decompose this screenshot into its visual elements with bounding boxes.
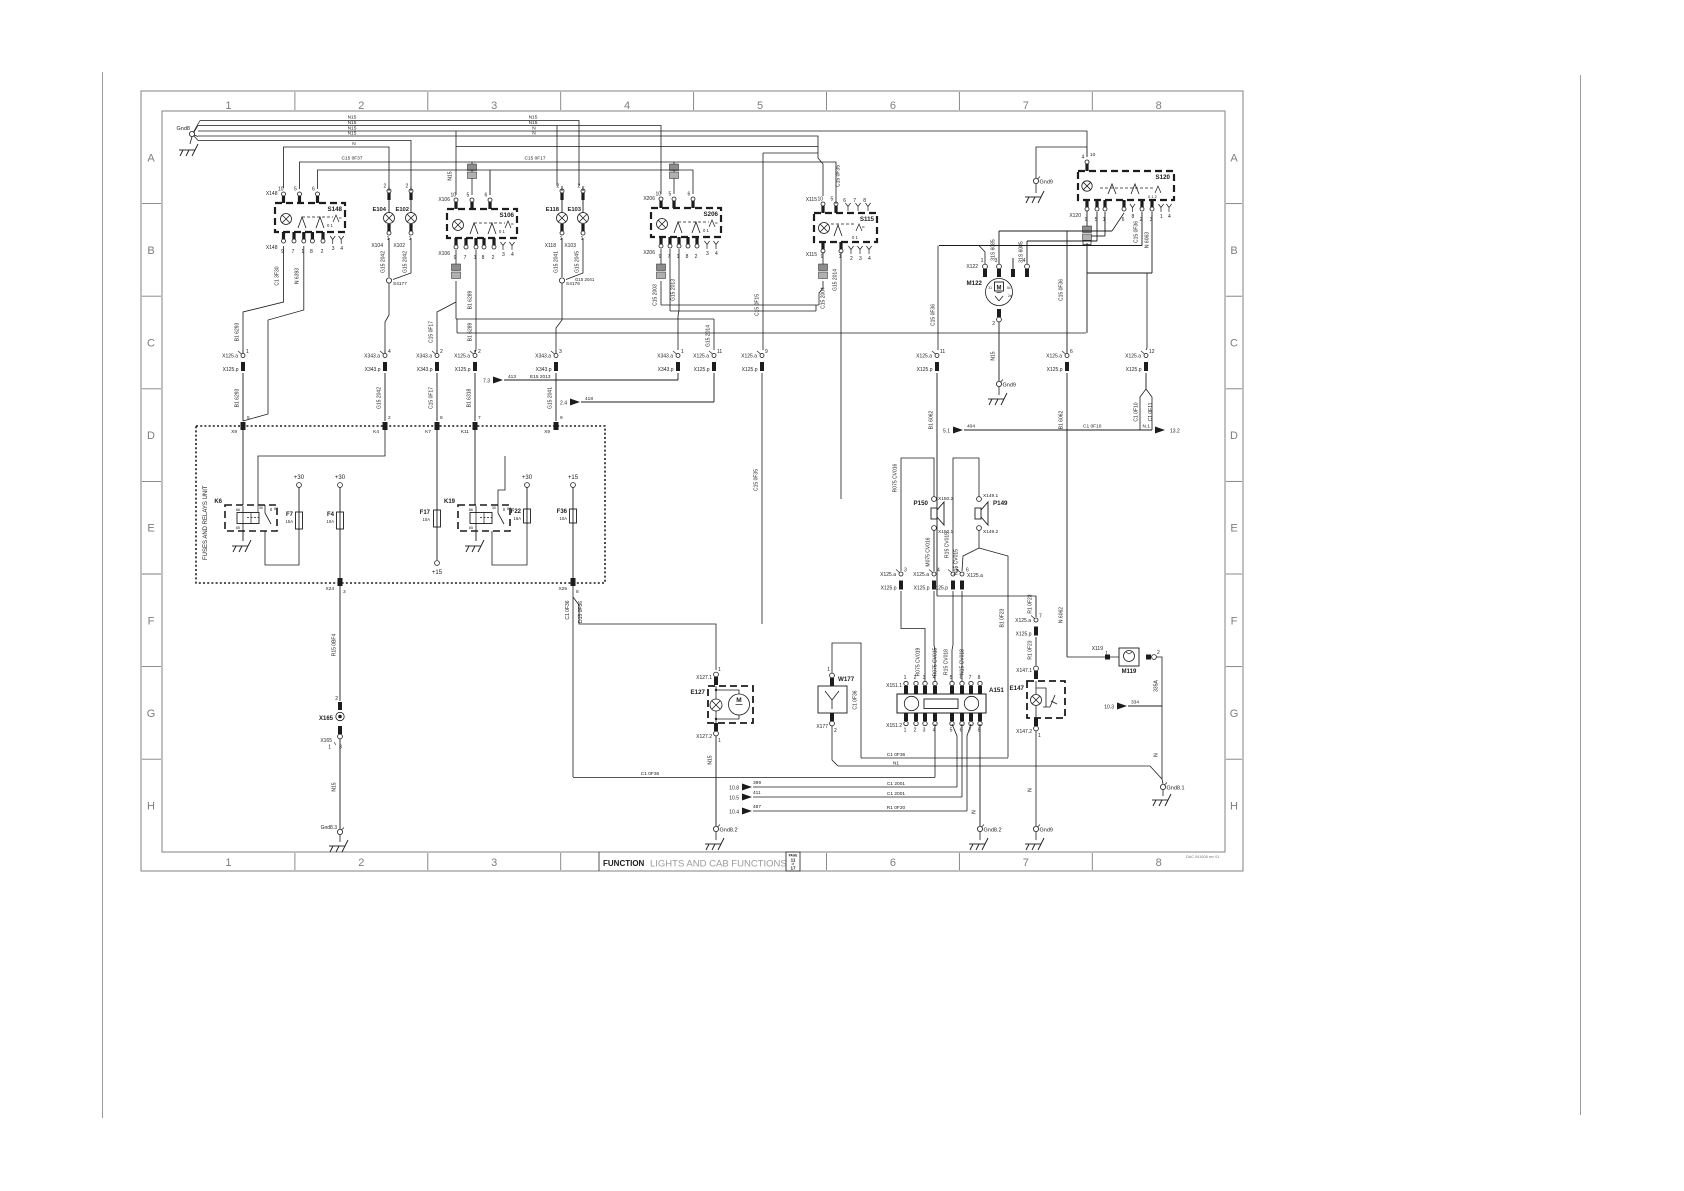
svg-text:7: 7 — [478, 415, 481, 421]
fuse F4 — [327, 475, 346, 578]
svg-text:X125.a: X125.a — [913, 572, 929, 578]
svg-text:X343.a: X343.a — [657, 354, 673, 360]
svg-text:54: 54 — [1007, 286, 1011, 290]
svg-text:X151.2: X151.2 — [886, 723, 902, 729]
svg-text:R15 0BF4: R15 0BF4 — [332, 634, 338, 657]
svg-text:FUNCTION: FUNCTION — [603, 859, 645, 868]
svg-text:1: 1 — [1160, 214, 1163, 220]
svg-text:2: 2 — [578, 184, 581, 190]
svg-text:1: 1 — [718, 667, 721, 673]
wire Gnd9 to S120 pin10 — [1036, 147, 1096, 178]
svg-text:N15: N15 — [348, 120, 357, 126]
svg-text:R075 CV019: R075 CV019 — [916, 647, 922, 676]
svg-text:3: 3 — [559, 349, 562, 355]
connector X125 pin 4 speaker row — [913, 568, 940, 592]
unit bottom pin X25 — [558, 578, 579, 595]
svg-text:X125.p: X125.p — [223, 367, 239, 373]
wire E104 E102 to node S4177 — [381, 238, 412, 350]
unit bottom pin X24 — [325, 578, 346, 595]
svg-text:S106: S106 — [500, 212, 515, 219]
svg-text:B: B — [147, 245, 154, 257]
svg-text:X148: X148 — [266, 191, 278, 197]
svg-text:B1 6318: B1 6318 — [467, 388, 473, 407]
svg-text:X103: X103 — [564, 243, 576, 249]
svg-text:5: 5 — [247, 415, 250, 421]
relay K6 — [214, 499, 278, 531]
svg-text:E104: E104 — [372, 207, 386, 213]
svg-text:Gnd9: Gnd9 — [1003, 383, 1016, 389]
fuses and relays unit box — [196, 426, 605, 583]
svg-text:Gnd8: Gnd8 — [177, 126, 190, 132]
svg-text:6: 6 — [312, 187, 315, 193]
svg-text:B1 6062: B1 6062 — [1059, 410, 1065, 429]
svg-text:4: 4 — [1168, 214, 1171, 220]
svg-text:7: 7 — [1023, 857, 1029, 869]
connector X147.2 — [1016, 718, 1041, 739]
svg-text:C15 0F35: C15 0F35 — [836, 165, 842, 187]
connector X343.a/X343.p pin 2 row C — [416, 349, 443, 373]
svg-text:R1 0F23: R1 0F23 — [1028, 640, 1034, 659]
wire C1 0F36 lower run — [573, 724, 935, 778]
svg-text:7: 7 — [464, 255, 467, 261]
connector X127.2 — [696, 723, 721, 744]
svg-text:N: N — [352, 141, 356, 147]
svg-text:X102: X102 — [393, 243, 405, 249]
svg-text:N15: N15 — [448, 171, 454, 180]
svg-text:17: 17 — [790, 866, 796, 871]
wire N1 run — [832, 726, 1162, 779]
svg-text:X343.p: X343.p — [658, 367, 674, 373]
svg-text:N 6063: N 6063 — [1145, 232, 1151, 248]
svg-text:P150: P150 — [914, 500, 929, 507]
svg-text:3: 3 — [859, 256, 862, 262]
connector X125 pin 6 speaker row — [957, 568, 983, 590]
svg-text:X343.p: X343.p — [417, 367, 433, 373]
svg-text:0 1: 0 1 — [703, 228, 709, 233]
title block — [599, 852, 1219, 871]
svg-text:2: 2 — [557, 184, 560, 190]
svg-text:G15 2013: G15 2013 — [671, 279, 677, 301]
svg-text:K11: K11 — [461, 429, 470, 435]
svg-text:D: D — [1230, 430, 1238, 442]
speaker P150 — [914, 496, 954, 535]
svg-text:10.3: 10.3 — [1104, 705, 1114, 711]
svg-text:1: 1 — [981, 258, 984, 264]
svg-text:X106: X106 — [438, 251, 450, 257]
svg-text:+30: +30 — [294, 475, 305, 481]
wire M122 pin2 to Gnd9 — [991, 309, 1002, 381]
svg-text:C1 2001: C1 2001 — [887, 781, 905, 787]
wire X125 pin11 down — [929, 373, 938, 596]
svg-text:F7: F7 — [286, 512, 294, 518]
relay K19 — [444, 499, 511, 531]
switch unit S106 — [438, 193, 517, 262]
svg-text:+15: +15 — [568, 475, 579, 481]
svg-text:R075 CV015: R075 CV015 — [933, 647, 939, 676]
connector X343.a/X343.p pin 4 row C — [364, 349, 391, 373]
svg-text:N: N — [1028, 788, 1034, 792]
svg-text:X119: X119 — [1092, 646, 1104, 652]
svg-text:2: 2 — [914, 728, 917, 734]
svg-text:G15 2041: G15 2041 — [548, 387, 554, 409]
svg-text:N15 CV018: N15 CV018 — [960, 649, 966, 675]
svg-text:11: 11 — [717, 349, 722, 355]
svg-text:S115: S115 — [860, 216, 875, 223]
svg-text:10: 10 — [818, 197, 824, 203]
svg-text:X125.p: X125.p — [455, 367, 471, 373]
svg-text:6: 6 — [485, 193, 488, 199]
svg-text:7: 7 — [1023, 100, 1029, 112]
wire X125 pin6 down — [1059, 231, 1068, 657]
svg-text:X122: X122 — [966, 264, 978, 270]
svg-text:X125.a: X125.a — [916, 354, 932, 360]
switch unit S148 — [266, 187, 345, 256]
svg-text:7: 7 — [1039, 614, 1042, 620]
speaker P149 — [975, 493, 1008, 535]
svg-text:G15 2042: G15 2042 — [381, 251, 387, 273]
splice under S115 — [819, 264, 828, 271]
svg-text:M: M — [997, 286, 1002, 292]
wire S206 pin1 down — [671, 249, 680, 350]
wires S120 weave — [939, 211, 1152, 351]
wire X343 pin2 to fuse unit — [429, 350, 438, 421]
svg-text:C1 0F11: C1 0F11 — [1148, 402, 1154, 421]
connector W177 pin1 — [827, 667, 834, 686]
svg-text:DAC 041608 rev 01: DAC 041608 rev 01 — [1186, 855, 1219, 859]
svg-text:+15: +15 — [432, 570, 443, 576]
svg-text:C: C — [147, 338, 155, 350]
svg-text:2: 2 — [850, 256, 853, 262]
reference arrow 10.5 — [729, 724, 962, 802]
svg-text:B1 6289: B1 6289 — [468, 322, 474, 341]
svg-text:N15: N15 — [991, 351, 997, 360]
svg-text:10.8: 10.8 — [729, 786, 739, 792]
svg-text:4: 4 — [715, 251, 718, 257]
svg-text:30: 30 — [259, 506, 263, 510]
wire C1 0F36 upper run — [861, 752, 1008, 758]
bus N wire 6 — [284, 141, 390, 188]
svg-text:6: 6 — [843, 198, 846, 204]
connector X343.a/X343.p pin 1 row C — [657, 349, 684, 373]
svg-text:R15 CV018: R15 CV018 — [944, 649, 950, 675]
ground reference Gnd8.3 — [321, 825, 348, 852]
switch unit S120 — [1069, 155, 1174, 224]
svg-text:N 6393: N 6393 — [295, 268, 301, 284]
ground reference Gnd8.1 — [1152, 783, 1185, 807]
svg-text:7.3: 7.3 — [483, 379, 490, 385]
svg-text:4: 4 — [868, 256, 871, 262]
svg-text:C1 3F30: C1 3F30 — [275, 266, 281, 285]
svg-text:X118: X118 — [545, 243, 557, 249]
svg-text:S120: S120 — [1156, 174, 1171, 181]
svg-text:X148: X148 — [266, 245, 278, 251]
svg-text:X206: X206 — [643, 196, 655, 202]
lamp-switch unit E147 — [1010, 681, 1065, 718]
inner drawing frame — [162, 111, 1225, 852]
svg-text:D15 0F36: D15 0F36 — [578, 601, 584, 623]
wire X125 pin9 down long — [754, 373, 763, 624]
fuse F17 — [420, 430, 443, 576]
svg-text:G15 2014: G15 2014 — [833, 269, 839, 291]
svg-text:Gnd8.1: Gnd8.1 — [1167, 786, 1185, 792]
svg-text:X125.a: X125.a — [741, 354, 757, 360]
svg-text:B1 6293: B1 6293 — [235, 322, 241, 341]
svg-text:1: 1 — [225, 100, 231, 112]
svg-text:R15 CV015: R15 CV015 — [945, 532, 951, 558]
svg-text:X206: X206 — [643, 250, 655, 256]
bus N wire 5 — [198, 141, 411, 187]
svg-text:X125.a: X125.a — [1046, 354, 1062, 360]
svg-text:X147.1: X147.1 — [1016, 668, 1032, 674]
wire horizontal row C right — [457, 332, 1086, 334]
svg-text:R075 CV016: R075 CV016 — [893, 463, 899, 492]
svg-text:W177: W177 — [838, 676, 855, 683]
svg-text:X125.p: X125.p — [1126, 367, 1142, 373]
svg-text:2: 2 — [492, 255, 495, 261]
wire M119 feed — [1067, 646, 1119, 660]
svg-text:G15 2041: G15 2041 — [575, 277, 595, 282]
svg-text:7: 7 — [969, 675, 972, 681]
svg-text:X125.p: X125.p — [742, 367, 758, 373]
reference arrow 2.4 — [560, 373, 714, 407]
ground reference Gnd8.2 left — [705, 825, 738, 851]
svg-text:X149.2: X149.2 — [983, 529, 999, 535]
wire K19 switch to F22 — [492, 523, 527, 565]
wire W177 feed loop — [832, 643, 861, 758]
svg-text:7: 7 — [292, 249, 295, 255]
svg-text:85: 85 — [469, 526, 473, 530]
svg-text:2: 2 — [321, 249, 324, 255]
svg-text:2: 2 — [388, 415, 391, 421]
svg-text:X125.a: X125.a — [454, 354, 470, 360]
svg-text:2a: 2a — [1008, 294, 1012, 298]
column scale labels bottom — [225, 853, 1161, 870]
svg-text:G15 2042: G15 2042 — [377, 387, 383, 409]
svg-text:+30: +30 — [522, 475, 533, 481]
lamp E102 — [393, 184, 416, 250]
wire X125 pin12 down split — [1134, 373, 1155, 430]
svg-text:K4: K4 — [373, 429, 379, 435]
svg-text:8: 8 — [440, 415, 443, 421]
svg-text:X127.1: X127.1 — [696, 675, 712, 681]
row scale labels left — [142, 152, 161, 812]
svg-text:3: 3 — [904, 568, 907, 574]
svg-text:R1 0F23: R1 0F23 — [1028, 594, 1034, 613]
svg-text:10.5: 10.5 — [729, 796, 739, 802]
connector X125 pin7 E147 column — [1015, 614, 1042, 638]
svg-text:M119: M119 — [1122, 669, 1137, 675]
svg-text:8: 8 — [576, 589, 579, 595]
svg-text:2: 2 — [358, 857, 364, 869]
svg-text:Gnd8.3: Gnd8.3 — [321, 825, 338, 831]
svg-text:E102: E102 — [395, 207, 409, 213]
svg-text:30: 30 — [492, 506, 496, 510]
wire X125 pin2 to fuse unit — [467, 350, 477, 421]
wire S148 pin9 down — [235, 246, 284, 350]
svg-text:1: 1 — [246, 349, 249, 355]
connector X125.a/X125.p pin 1 row C — [222, 349, 249, 373]
svg-text:8: 8 — [978, 675, 981, 681]
svg-text:R1 0F20: R1 0F20 — [887, 805, 906, 811]
svg-text:5: 5 — [294, 187, 297, 193]
fuse F22 — [511, 475, 533, 524]
svg-text:86: 86 — [469, 508, 473, 512]
svg-text:1: 1 — [904, 728, 907, 734]
svg-text:5: 5 — [831, 197, 834, 203]
svg-text:N15: N15 — [529, 120, 538, 126]
connector X125 pin 5 speaker row — [932, 568, 959, 592]
svg-text:C15 0F17: C15 0F17 — [429, 387, 435, 409]
svg-text:1: 1 — [681, 349, 684, 355]
wire S115 pin1 down — [833, 252, 842, 499]
svg-text:10: 10 — [451, 193, 457, 199]
svg-text:X125.a: X125.a — [222, 354, 238, 360]
reference arrow 7.3 — [483, 373, 678, 385]
svg-text:X106: X106 — [438, 197, 450, 203]
svg-text:C1 0F10: C1 0F10 — [1134, 402, 1140, 421]
switch unit S115 — [806, 197, 877, 263]
svg-text:X125.a: X125.a — [693, 354, 709, 360]
page edge rule left — [102, 72, 104, 1118]
reference arrow 10.8 — [729, 724, 957, 792]
ground reference Gnd9 bottom — [1025, 825, 1053, 851]
svg-text:5.1: 5.1 — [943, 429, 950, 435]
ground reference Gnd8.2 right — [969, 825, 1002, 851]
svg-text:S4177: S4177 — [393, 281, 407, 287]
svg-text:10A: 10A — [327, 519, 335, 524]
connector X125.a/X125.p pin 11 row C — [916, 349, 945, 373]
svg-text:X125.a: X125.a — [1015, 618, 1031, 624]
svg-text:C1 2001: C1 2001 — [887, 791, 905, 797]
svg-text:418: 418 — [585, 396, 593, 402]
svg-text:G: G — [1230, 708, 1239, 720]
svg-text:6: 6 — [688, 192, 691, 198]
svg-text:10: 10 — [278, 187, 284, 193]
svg-text:N15: N15 — [529, 115, 538, 121]
wires speakers to A151 — [901, 591, 966, 681]
svg-text:X25: X25 — [558, 586, 567, 592]
svg-text:X115: X115 — [806, 197, 818, 203]
connector X125.a/X125.p pin 9 row C — [741, 349, 768, 373]
svg-text:5: 5 — [669, 192, 672, 198]
lamp-motor unit E127 — [691, 686, 753, 723]
svg-text:N 6062: N 6062 — [1059, 607, 1065, 623]
row scale labels right — [1226, 152, 1242, 812]
svg-text:4: 4 — [388, 349, 391, 355]
svg-text:8: 8 — [1132, 214, 1135, 220]
svg-text:3: 3 — [332, 246, 335, 252]
svg-text:C15 0F36: C15 0F36 — [931, 304, 937, 326]
wire P149 loop — [945, 458, 1009, 758]
connector X177 pin2 — [816, 713, 837, 734]
wire X125 pin1 to fuse unit — [235, 350, 244, 421]
fuse F36 — [557, 475, 579, 578]
svg-text:13.2: 13.2 — [1170, 429, 1180, 435]
svg-text:7: 7 — [853, 198, 856, 204]
svg-text:F17: F17 — [420, 510, 431, 516]
svg-text:E15 2013: E15 2013 — [530, 374, 551, 380]
connector X343.a/X343.p pin 3 row C — [535, 349, 562, 373]
svg-text:A: A — [1230, 152, 1238, 164]
column scale labels top — [225, 92, 1161, 112]
svg-text:2: 2 — [992, 321, 995, 327]
svg-text:1: 1 — [718, 738, 721, 744]
connector X125.a/X125.p pin 12 row C — [1125, 349, 1155, 373]
motor M122 — [966, 258, 1029, 306]
wire M119 out — [1146, 650, 1163, 784]
svg-text:C: C — [1230, 338, 1238, 350]
svg-text:10A: 10A — [560, 516, 568, 521]
splice under S120 — [1083, 226, 1092, 245]
svg-text:8: 8 — [482, 255, 485, 261]
wire X165 to Gnd8.3 — [332, 739, 341, 829]
svg-text:C15 0F36: C15 0F36 — [1134, 221, 1140, 243]
wire K6 switch to F7 — [265, 529, 299, 565]
svg-text:X125.p: X125.p — [1047, 367, 1063, 373]
svg-text:X147.2: X147.2 — [1016, 729, 1032, 735]
svg-text:3: 3 — [339, 745, 342, 751]
svg-text:G15 2041: G15 2041 — [554, 251, 560, 273]
svg-text:X125.a: X125.a — [1125, 354, 1141, 360]
svg-text:87: 87 — [274, 507, 278, 511]
wire X343 pin3 to fuse unit — [548, 350, 557, 421]
svg-text:487: 487 — [753, 804, 761, 810]
svg-text:LIGHTS AND CAB FUNCTIONS: LIGHTS AND CAB FUNCTIONS — [650, 859, 787, 870]
svg-text:N: N — [972, 810, 978, 814]
ground reference Gnd9 top — [1025, 177, 1053, 204]
svg-text:F36: F36 — [557, 509, 568, 515]
svg-text:Gnd8.2: Gnd8.2 — [984, 828, 1002, 834]
svg-text:B1 6289: B1 6289 — [468, 290, 474, 309]
outer drawing frame — [141, 91, 1243, 871]
svg-text:8: 8 — [1156, 857, 1162, 869]
svg-text:X125.p: X125.p — [932, 586, 948, 592]
bus N15 wire 1 — [200, 115, 579, 187]
antenna W177 — [818, 676, 855, 713]
svg-text:A151: A151 — [989, 687, 1004, 694]
svg-text:F22: F22 — [511, 509, 522, 515]
svg-text:C1 0F10: C1 0F10 — [1083, 424, 1102, 430]
svg-text:M122: M122 — [967, 280, 983, 287]
wire X343 pin4 to fuse unit — [377, 350, 386, 421]
svg-text:15A: 15A — [286, 519, 294, 524]
connector X151.1 top pins — [886, 675, 982, 694]
connector X165 — [319, 696, 344, 751]
svg-text:10: 10 — [1090, 152, 1096, 158]
ground reference Gnd9 under M122 — [988, 380, 1016, 406]
svg-text:6: 6 — [890, 857, 896, 869]
svg-text:3: 3 — [502, 252, 505, 258]
switch unit S206 — [643, 192, 721, 261]
svg-text:B1 6293: B1 6293 — [235, 388, 241, 407]
wire X25 down and right — [565, 586, 716, 777]
lamp E103 — [564, 184, 588, 250]
bus C15 0F37 wire — [300, 131, 842, 204]
connector X125.a/X125.p pin 11 row C — [693, 349, 722, 373]
unit top pin K11 — [461, 415, 481, 435]
svg-text:K7: K7 — [425, 429, 431, 435]
svg-text:N: N — [1154, 753, 1160, 757]
wire E147 to Gnd9 — [1028, 731, 1037, 826]
svg-text:6: 6 — [1122, 217, 1125, 223]
svg-text:E147: E147 — [1010, 685, 1025, 692]
svg-text:2: 2 — [384, 184, 387, 190]
svg-text:F: F — [1231, 615, 1238, 627]
ground under K19 — [465, 531, 484, 552]
svg-text:0 1: 0 1 — [327, 223, 333, 228]
svg-text:C1 0F36: C1 0F36 — [887, 752, 906, 758]
unit top pin X9 left — [231, 415, 250, 435]
